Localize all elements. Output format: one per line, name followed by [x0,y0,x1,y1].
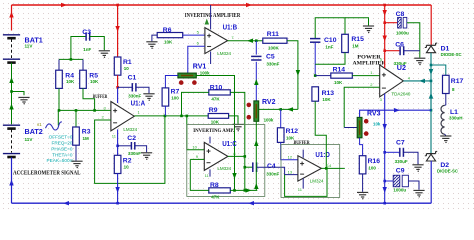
wire arrow left on -V rail [63,201,69,205]
wire +V corner to D1 [430,5,432,45]
wire C5 to RV2 top [255,62,257,101]
svg-text:47K: 47K [211,194,220,199]
svg-text:14: 14 [327,163,332,168]
wire C8 right to ground net [407,23,420,58]
svg-text:INVERTING AMPLIFIER: INVERTING AMPLIFIER [185,13,241,19]
svg-text:100: 100 [171,96,179,101]
wire U1:A feedback loop [95,116,165,183]
resistor R10 [209,90,231,95]
node junction feedback [430,109,433,112]
svg-text:R6: R6 [163,27,172,34]
diode D1 schottky [426,44,435,46]
node junction R12 top [279,108,282,111]
svg-text:PHASE=0: PHASE=0 [51,147,73,152]
wire U1:D - feedback loop [285,168,327,196]
wire midpoint to BAT2 positive [11,92,13,125]
node junction battery midpoint [10,90,13,93]
wire arrow right on +V rail [61,3,67,7]
svg-text:330uF: 330uF [395,159,408,164]
resistor R14 [331,73,353,78]
resistor R5 [82,59,84,70]
wire R9 right to ground [229,116,238,124]
wire R14 left [315,75,331,77]
svg-text:LM324: LM324 [310,178,324,183]
resistor R6 [157,33,183,38]
pin stub U1:D bottom [302,178,304,188]
resistor R9 [208,114,228,119]
pin 4 stub U1:B to +V rail [210,5,212,30]
node junction R8 RV1 net [233,189,236,192]
svg-text:R16: R16 [368,158,381,165]
capacitor C8 electrolytic [385,22,398,24]
wire C2 to ground [135,146,147,152]
svg-text:RV2: RV2 [262,99,276,106]
wire RV3 bottom to R16 [360,138,363,156]
node junction +V at U2 branch [383,4,386,7]
wire R10 right down to U1:C output node [230,92,245,156]
resistor R11 [263,38,287,43]
box buffer stage 2 [281,145,340,198]
pin 3 stub U2 -V to rail [384,94,386,204]
wire R6 left to ground [152,35,157,41]
wire R12 bottom to U1:D + [281,142,298,159]
wire R17 to L1 [445,94,446,106]
wire +V top rail [12,4,432,6]
ground R9 [232,123,243,125]
inductor L1 [441,105,445,134]
wire C9 to ground [409,181,419,190]
svg-text:10K: 10K [334,80,343,85]
svg-text:10: 10 [192,145,197,150]
wire C7 to ground [404,152,418,164]
svg-text:BUFFER: BUFFER [93,94,108,100]
svg-text:RV1: RV1 [193,63,207,70]
svg-text:1M: 1M [83,136,90,141]
svg-text:C7: C7 [396,140,405,147]
wire RV2 wiper line [259,108,298,110]
wire +V down to U2 [384,5,386,51]
svg-text:1nF: 1nF [325,45,333,50]
svg-text:330nF: 330nF [128,151,141,156]
potentiometer RV1 [178,73,196,78]
svg-text:R15: R15 [351,36,364,43]
capacitor C5 [255,41,257,55]
ground C9 [413,189,424,191]
svg-text:11V: 11V [25,44,34,49]
node junction R5 jog [93,109,96,112]
wire U2 - input feedback [344,87,380,127]
ground top net [363,25,374,27]
op-amp U1:B [205,28,228,54]
ground C2 [141,152,152,154]
node junction +V at R1 branch [116,4,119,7]
wire C4 right to U1:D - [257,167,298,174]
ground L1 [440,135,451,137]
wire R2 to -V rail [117,174,119,204]
resistor R3 [75,110,77,127]
node junction R17 tap [430,64,433,67]
wire junction to U1:A V+ pin [117,87,119,103]
svg-text:10K: 10K [164,40,173,45]
svg-text:1nF: 1nF [83,47,91,52]
wire R8 right to output node [230,189,257,191]
capacitor C3 [71,37,86,60]
resistor R12 [280,109,282,127]
wire R6 right to U1:B + [183,34,205,36]
wire U1:D output [321,167,344,169]
resistor R7 [162,88,169,106]
ground C8 C6 [414,57,425,59]
potentiometer RV2 [254,101,259,121]
wire BAT1 positive to rail [11,5,13,31]
wire output node to U1:C + [187,116,205,150]
svg-text:R3: R3 [82,129,91,136]
svg-text:LM324: LM324 [123,127,137,132]
wire arrow right on +V rail 2 [246,3,252,7]
capacitor C10 [310,38,320,40]
svg-text:100K: 100K [268,45,280,50]
svg-text:10: 10 [124,164,130,169]
wire C3 to ground [90,37,105,51]
resistor R2 [114,155,121,173]
wire R10 left to output node [182,92,209,116]
svg-text:U1:B: U1:B [223,22,238,31]
wire R5 bottom jog to input line [83,88,95,110]
pin stub U1:C top [209,137,211,144]
svg-text:1M: 1M [352,44,359,49]
svg-text:R14: R14 [333,66,346,73]
wire BAT2 negative to -V rail [11,157,13,203]
svg-text:100: 100 [368,166,376,171]
wire signal input line to U1:A + [58,109,111,111]
ground C1 [143,93,154,95]
wire C6 right to ground net [404,50,420,52]
resistor R1 [114,57,121,75]
node junction R13 bottom [325,167,328,170]
op-amp U1:A [111,102,134,131]
svg-text:10K: 10K [211,120,220,125]
wire R8 left to U1:C - [190,159,209,190]
svg-text:FREQ=20: FREQ=20 [52,140,73,145]
svg-text:13: 13 [288,170,293,175]
pin 11 stub U1:B [210,52,212,65]
node junction output U1:C + branch [186,115,189,118]
wire +V down to R1 [117,5,119,57]
svg-text:LM324: LM324 [217,51,231,56]
wire R14 right to U2 + [352,75,379,77]
svg-text:R7: R7 [171,89,180,96]
resistor R16 [359,156,366,174]
svg-text:PEAK=500m: PEAK=500m [47,158,74,163]
svg-text:1000u: 1000u [396,30,409,35]
wire C10 bottom [314,43,316,76]
svg-text:330uH: 330uH [449,116,463,121]
wire R16 to ground [362,174,364,192]
wire output to R17 [431,65,446,75]
resistor R13 [312,87,319,101]
wire RV1 right down to R8 net [196,76,234,191]
wire RV1 left to R7 [165,76,178,88]
svg-text:DIODE-SC: DIODE-SC [437,169,458,174]
wire R7 bottom to output node [164,106,166,116]
svg-text:DIODE-SC: DIODE-SC [441,52,462,57]
svg-text:100k: 100k [200,71,210,76]
wire R15 bottom to node [315,53,345,65]
svg-text:ACCELEROMETER SIGNAL: ACCELEROMETER SIGNAL [13,171,81,177]
svg-text:10K: 10K [322,97,331,102]
wire output node down to feedback level [430,81,432,153]
wire divider top rail [59,58,83,60]
wire R11 right down to wiper line [287,41,298,110]
svg-text:OFFSET=0: OFFSET=0 [49,134,73,139]
wire feedback to RV3 top [360,110,431,117]
svg-text:R12: R12 [286,128,299,135]
wire arrow left on -V rail 2 [248,201,254,205]
box inverting amp stage [187,125,265,197]
node junction C5 tap [255,39,258,42]
svg-text:100k: 100k [264,117,274,122]
node junction -V at U2 branch [383,202,386,205]
svg-text:R13: R13 [322,90,335,97]
svg-text:TDA2040: TDA2040 [391,92,411,97]
wire midpoint to ground [12,92,25,96]
wire U2 output [403,80,431,82]
pin stub U1:D top [302,150,304,158]
pin stub U1:C bottom [209,169,211,176]
wire -V bottom rail [12,202,432,204]
ground R3 and source [71,160,82,162]
resistor R17 [443,75,450,93]
wire D1 anode down to output node [430,53,432,110]
resistor R15 [342,34,349,52]
svg-text:10K: 10K [90,79,99,84]
svg-text:INVERTING AMP.: INVERTING AMP. [193,128,235,134]
node junction R8 output vert [244,189,247,192]
wire U1:C output [228,155,245,157]
svg-text:C5: C5 [266,54,275,61]
svg-text:C1: C1 [128,75,137,82]
capacitor C7 [385,151,400,153]
svg-text:U1:A: U1:A [131,98,146,107]
svg-text:C9: C9 [396,168,405,175]
svg-text:R2: R2 [123,157,132,164]
op-amp U1:D [298,156,322,181]
ground R16 [357,191,368,193]
capacitor C1 [118,86,133,88]
ground battery midpoint [18,96,29,98]
svg-text:R11: R11 [267,31,279,38]
potentiometer RV3 [357,117,362,137]
ground R6 [146,41,157,43]
svg-text:C3: C3 [82,29,91,36]
svg-text:R9: R9 [209,107,218,114]
node junction R1 C1 U1:A power [116,86,119,89]
svg-text:47K: 47K [211,96,220,101]
capacitor C9 electrolytic [385,180,394,182]
svg-text:330uF: 330uF [394,61,407,66]
svg-text:v1: v1 [37,122,42,127]
capacitor C6 [385,50,400,52]
capacitor C2 [118,145,132,147]
svg-text:10K: 10K [66,79,75,84]
resistor R8 [209,188,231,193]
node junction C4 tap [244,166,247,169]
svg-text:C10: C10 [324,37,337,44]
svg-text:R17: R17 [451,78,464,85]
svg-text:10: 10 [124,66,130,71]
op-amp U2 TDA2040 [380,65,404,97]
node junction C6 tap [383,49,386,52]
svg-text:R8: R8 [210,182,219,189]
svg-text:U1:C: U1:C [222,139,237,148]
svg-text:330nF: 330nF [266,62,279,67]
node junction R3 top [75,109,78,112]
svg-text:R10: R10 [210,84,223,91]
generator accelerometer sine source [57,110,59,125]
node junction R14 R13 [314,74,317,77]
svg-text:10k: 10k [373,122,381,127]
svg-text:11V: 11V [25,137,34,142]
ground C7 [412,164,423,166]
wire L1 to ground [445,134,446,135]
svg-text:330nF: 330nF [266,172,279,177]
svg-text:RV3: RV3 [367,111,381,118]
svg-text:12: 12 [288,155,293,160]
node junction output [430,80,433,83]
svg-text:C4: C4 [267,163,276,170]
svg-text:1000u: 1000u [393,187,406,192]
pin 9 wire U1:C - [190,158,204,160]
wire C10 R15 top net [315,18,345,38]
node junction C3 tap [70,58,73,61]
battery BAT2 [3,124,20,126]
wire BAT1 negative down [11,63,13,92]
battery BAT1 [3,34,20,36]
node junction R4 bottom [58,109,61,112]
pin 5 stub U2 +V [384,51,386,68]
wire top net to ground [345,18,369,26]
svg-text:C8: C8 [396,11,405,18]
svg-text:C2: C2 [127,135,136,142]
node junction C2 tap [116,145,119,148]
node junction C7 tap [383,151,386,154]
diode D2 schottky [426,153,435,155]
node junction C8 tap [383,21,386,24]
node junction C9 tap [383,180,386,183]
svg-text:LM324: LM324 [217,166,231,171]
wire R1 bottom to junction [117,75,119,87]
svg-text:BAT2: BAT2 [25,127,43,136]
wire U1:B - to RV1 wiper [188,46,205,73]
wire C1 to ground [136,87,149,93]
pin 11 stub U1:A [117,129,119,155]
resistor R4 [58,59,60,70]
op-amp U1:C [204,142,228,170]
svg-text:U1:D: U1:D [315,150,330,159]
wire output node down C4 [244,156,246,190]
node junction output R7 [164,115,167,118]
wire U1:B output [228,40,263,42]
wire U1:A output [134,115,208,117]
node junction -V at R2 branch [116,202,119,205]
node junction U1:C out [244,155,247,158]
capacitor C4 [245,166,253,168]
wire R13 bottom to U1:D output [315,101,326,168]
ground C3 [99,50,110,52]
wire RV2 bottom to R8 net [255,121,257,190]
wire D2 to -V rail [430,161,432,203]
svg-text:C6: C6 [395,41,404,48]
node junction output R10 branch [180,115,183,118]
